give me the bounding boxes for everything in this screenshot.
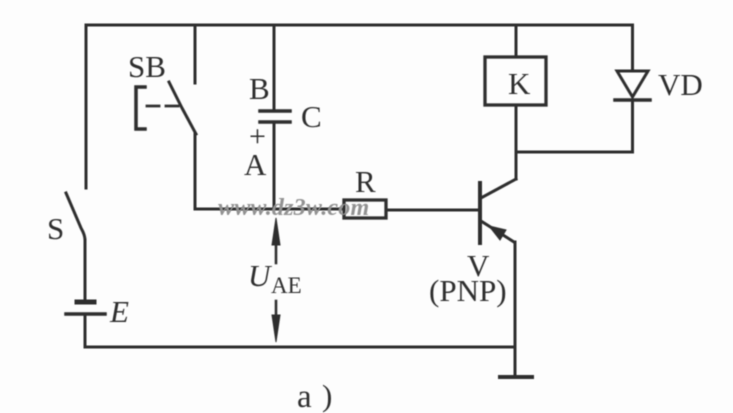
switch S — [66, 193, 85, 240]
svg-text:SB: SB — [128, 49, 166, 84]
svg-text:AE: AE — [271, 273, 302, 298]
U_AE arrow down — [272, 301, 280, 342]
wire switch S to battery — [84, 240, 87, 299]
svg-text:B: B — [249, 71, 270, 106]
pushbutton SB dashed link — [147, 105, 178, 108]
transistor V emitter diagonal — [481, 221, 514, 242]
transistor V base bar — [478, 183, 482, 243]
wire capacitor branch lower (node A) — [273, 124, 276, 209]
wire node A horizontal run — [195, 208, 342, 211]
ground bar — [500, 375, 532, 379]
diode VD triangle — [617, 71, 648, 97]
capacitor C plate top — [260, 109, 290, 113]
wire left vertical (top-left corner down to switch S) — [85, 25, 88, 188]
transistor V collector diagonal — [481, 179, 516, 198]
capacitor C plate bottom — [260, 120, 290, 124]
battery E plate long — [66, 312, 105, 316]
wire top rail — [86, 24, 632, 27]
svg-text:C: C — [301, 99, 322, 134]
svg-text:A: A — [244, 147, 267, 182]
wire SB branch lower — [194, 134, 197, 209]
svg-text:a: a — [297, 379, 312, 413]
battery E plate short — [77, 300, 94, 305]
wire emitter vertical to ground — [514, 242, 517, 374]
svg-text:E: E — [109, 294, 129, 329]
svg-text:K: K — [508, 66, 531, 101]
wire capacitor branch upper (node B) — [273, 25, 276, 109]
resistor R body — [344, 200, 386, 218]
wire bottom rail — [85, 346, 515, 349]
wire diode VD branch upper — [631, 25, 634, 71]
relay coil K box — [485, 57, 546, 105]
U_AE arrow up — [272, 218, 280, 263]
svg-text:S: S — [47, 211, 64, 246]
wire relay K branch upper — [515, 25, 518, 57]
svg-text:): ) — [322, 378, 332, 413]
pushbutton SB blade — [169, 82, 196, 134]
svg-text:R: R — [355, 164, 376, 199]
svg-text:VD: VD — [658, 67, 703, 102]
wire collector vertical — [515, 152, 518, 179]
wire SB branch upper — [194, 25, 197, 83]
svg-text:U: U — [248, 258, 273, 293]
wire diode VD branch lower — [631, 101, 634, 152]
wire battery to bottom rail — [84, 316, 87, 346]
wire relay/diode bottom rail — [516, 151, 632, 154]
wire resistor to transistor base — [386, 209, 479, 212]
diode VD cathode bar — [615, 98, 650, 102]
svg-text:(PNP): (PNP) — [429, 273, 507, 308]
transistor V emitter arrow (PNP, points toward base) — [489, 226, 506, 240]
svg-text:www.dz3w.com: www.dz3w.com — [218, 195, 369, 221]
pushbutton SB bracket — [136, 87, 145, 129]
wire relay K branch lower — [515, 105, 518, 152]
